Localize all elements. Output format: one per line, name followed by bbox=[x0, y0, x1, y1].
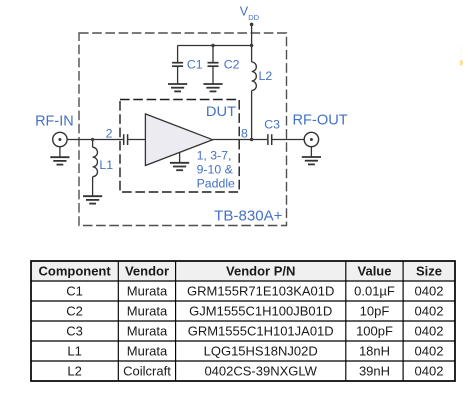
ground under C1 bbox=[168, 84, 187, 91]
svg-text:GRM155R71E103KA01D: GRM155R71E103KA01D bbox=[187, 284, 334, 299]
svg-text:C2: C2 bbox=[66, 304, 83, 319]
svg-text:Size: Size bbox=[416, 264, 442, 279]
svg-text:Value: Value bbox=[358, 264, 392, 279]
svg-text:DUT: DUT bbox=[206, 104, 237, 119]
svg-text:RF-IN: RF-IN bbox=[35, 113, 74, 129]
svg-text:Component: Component bbox=[38, 264, 111, 279]
svg-text:TB-830A+: TB-830A+ bbox=[214, 208, 283, 225]
svg-text:C1: C1 bbox=[187, 57, 203, 71]
svg-text:9-10 &: 9-10 & bbox=[197, 163, 234, 177]
svg-text:L2: L2 bbox=[259, 69, 273, 83]
wire C3 to RF-OUT bbox=[272, 139, 304, 141]
svg-text:0402: 0402 bbox=[415, 364, 444, 379]
highlight artifact (faint yellow streak) bbox=[460, 47, 464, 66]
svg-text:DD: DD bbox=[248, 13, 259, 22]
svg-text:Murata: Murata bbox=[127, 304, 168, 319]
node junction C2/VDD bus bbox=[211, 44, 214, 47]
svg-text:Murata: Murata bbox=[127, 324, 168, 339]
inductor L1 bbox=[93, 140, 98, 196]
DC block capacitor at pin 2 bbox=[124, 134, 128, 145]
svg-text:GRM1555C1H101JA01D: GRM1555C1H101JA01D bbox=[188, 324, 334, 339]
svg-text:18nH: 18nH bbox=[359, 344, 390, 359]
svg-text:Murata: Murata bbox=[127, 284, 168, 299]
wire VDD vertical bbox=[251, 24, 253, 62]
svg-text:C3: C3 bbox=[66, 324, 83, 339]
node junction L2/output bbox=[250, 138, 253, 141]
svg-text:C1: C1 bbox=[66, 284, 83, 299]
wire L2 to output node bbox=[251, 91, 253, 140]
node VDD terminal dot bbox=[250, 23, 254, 27]
board outline TB-830A+ dashed box bbox=[79, 33, 287, 226]
op-amp U1 (DUT amplifier) bbox=[145, 114, 212, 166]
svg-text:Vendor P/N: Vendor P/N bbox=[226, 264, 295, 279]
connector RF-IN bbox=[53, 132, 67, 157]
node junction L1 tap bbox=[91, 138, 94, 141]
svg-text:10pF: 10pF bbox=[360, 304, 390, 319]
svg-text:39nH: 39nH bbox=[359, 364, 390, 379]
DUT dashed box bbox=[120, 100, 239, 193]
svg-text:2: 2 bbox=[106, 127, 113, 141]
svg-text:0402: 0402 bbox=[415, 324, 444, 339]
amp ground stem bbox=[179, 153, 181, 163]
svg-text:LQG15HS18NJ02D: LQG15HS18NJ02D bbox=[204, 344, 318, 359]
connector RF-OUT bbox=[304, 132, 318, 156]
svg-text:RF-OUT: RF-OUT bbox=[293, 113, 348, 129]
svg-text:GJM1555C1H100JB01D: GJM1555C1H100JB01D bbox=[189, 304, 332, 319]
ground under RF-OUT bbox=[302, 157, 321, 164]
svg-text:C2: C2 bbox=[224, 57, 240, 71]
svg-text:L2: L2 bbox=[67, 364, 81, 379]
ground under L1 bbox=[83, 196, 102, 203]
svg-text:Vendor: Vendor bbox=[125, 264, 169, 279]
inductor L2 bbox=[252, 62, 257, 91]
svg-text:0402: 0402 bbox=[415, 344, 444, 359]
svg-text:0.01µF: 0.01µF bbox=[354, 284, 395, 299]
label VDD bbox=[240, 5, 260, 22]
wire DC block to amp input bbox=[128, 139, 145, 141]
svg-text:0402CS-39NXGLW: 0402CS-39NXGLW bbox=[204, 364, 317, 379]
svg-text:Coilcraft: Coilcraft bbox=[123, 364, 171, 379]
svg-text:100pF: 100pF bbox=[356, 324, 393, 339]
node junction VDD bus right bbox=[250, 44, 253, 47]
capacitor C1 bbox=[172, 46, 183, 84]
capacitor C3 bbox=[268, 134, 272, 145]
svg-text:0402: 0402 bbox=[415, 284, 444, 299]
svg-text:1, 3-7,: 1, 3-7, bbox=[197, 149, 232, 163]
wire RF-IN to DC block bbox=[67, 139, 123, 141]
svg-text:Murata: Murata bbox=[127, 344, 168, 359]
ground under RF-IN bbox=[50, 157, 69, 164]
svg-text:Paddle: Paddle bbox=[197, 176, 235, 190]
svg-text:C3: C3 bbox=[264, 117, 280, 131]
wire amp output to C3 bbox=[213, 139, 268, 141]
svg-text:0402: 0402 bbox=[415, 304, 444, 319]
wire C1-C2 top bus bbox=[178, 45, 252, 47]
svg-text:8: 8 bbox=[241, 126, 248, 140]
capacitor C2 bbox=[208, 46, 219, 84]
BOM table bbox=[31, 261, 455, 381]
ground under amp bbox=[170, 163, 189, 170]
svg-text:L1: L1 bbox=[67, 344, 81, 359]
label pins 1,3-7,9-10 & paddle bbox=[197, 149, 235, 191]
ground under C2 bbox=[203, 84, 222, 91]
svg-text:L1: L1 bbox=[99, 158, 113, 172]
